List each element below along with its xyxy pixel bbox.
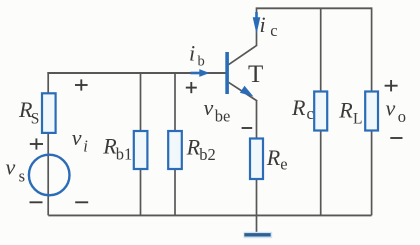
resistor Rb1 <box>134 131 148 169</box>
wire: emitter vertical <box>256 100 258 215</box>
source vs circle <box>29 155 70 196</box>
svg-text:e: e <box>280 155 287 174</box>
svg-text:R: R <box>291 95 306 120</box>
plus vs <box>30 138 43 149</box>
plus vi <box>75 79 88 90</box>
minus vi <box>75 201 88 203</box>
label ib <box>189 41 205 70</box>
minus vs <box>30 201 43 203</box>
svg-text:L: L <box>353 110 362 127</box>
label Re <box>266 145 288 174</box>
wire: RL vertical (right edge) <box>371 7 373 215</box>
current arrow ic <box>253 17 261 34</box>
minus vbe <box>242 127 253 129</box>
wire: mid rail (base rail) <box>47 72 226 74</box>
label vo <box>386 96 407 126</box>
svg-text:o: o <box>398 107 406 126</box>
label vi <box>72 125 89 156</box>
wire: emitter diagonal lead <box>229 82 258 101</box>
svg-text:i: i <box>189 41 195 66</box>
svg-text:b: b <box>198 54 205 70</box>
transistor emitter arrow <box>240 86 254 97</box>
minus vo <box>390 137 402 139</box>
resistor RS <box>42 93 56 133</box>
svg-text:v: v <box>6 154 16 179</box>
wire: left vertical <box>47 72 49 215</box>
svg-text:R: R <box>266 145 281 170</box>
ground <box>244 232 273 238</box>
resistor Rb2 <box>168 131 182 169</box>
wire: collector vertical from top rail <box>256 7 258 46</box>
label Rb2 <box>186 135 216 165</box>
label vbe <box>204 95 231 126</box>
svg-text:v: v <box>204 95 214 120</box>
svg-text:b1: b1 <box>116 145 133 164</box>
resistor Rc <box>314 92 327 131</box>
svg-text:c: c <box>270 21 277 40</box>
label Rb1 <box>102 134 132 164</box>
plus vo <box>385 80 398 91</box>
wire: Rb1 vertical <box>140 73 142 215</box>
resistor Re <box>250 139 263 180</box>
svg-text:i: i <box>83 137 88 156</box>
label Rc <box>291 95 314 123</box>
wire: Rc vertical <box>320 8 322 215</box>
label RS <box>18 97 39 127</box>
label ic <box>260 12 278 40</box>
svg-text:T: T <box>248 61 263 88</box>
label RL <box>338 98 362 128</box>
svg-text:c: c <box>307 104 314 123</box>
svg-text:R: R <box>338 98 353 123</box>
svg-text:S: S <box>31 110 40 127</box>
plus vbe <box>186 82 197 93</box>
transistor Q base bar <box>225 52 229 94</box>
current arrow ib <box>191 72 201 75</box>
svg-text:v: v <box>386 96 396 121</box>
svg-text:be: be <box>215 107 231 126</box>
svg-text:v: v <box>72 125 82 150</box>
resistor RL <box>365 92 378 131</box>
label vs <box>6 154 26 185</box>
wire: ground stem <box>256 215 258 233</box>
wire: bottom rail <box>48 214 371 216</box>
svg-text:b2: b2 <box>199 145 216 164</box>
svg-text:s: s <box>19 167 25 186</box>
wire: collector diagonal lead <box>229 45 258 64</box>
svg-text:i: i <box>260 12 266 37</box>
wire: top rail <box>257 7 372 9</box>
wire: Rb2 vertical <box>174 73 176 215</box>
